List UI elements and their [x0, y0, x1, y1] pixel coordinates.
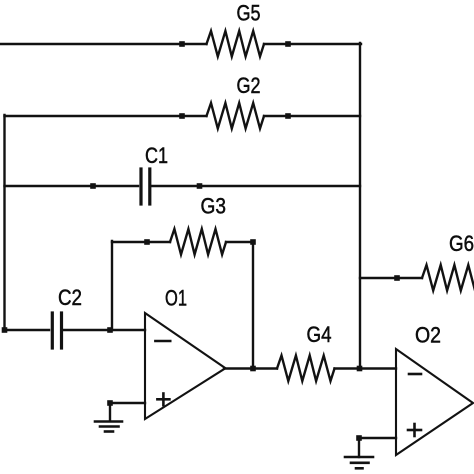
svg-text:G5: G5 — [237, 1, 261, 26]
svg-text:O2: O2 — [415, 323, 441, 348]
svg-text:G6: G6 — [449, 231, 474, 256]
svg-text:G2: G2 — [237, 73, 261, 98]
svg-text:G4: G4 — [307, 322, 332, 347]
svg-text:C1: C1 — [145, 143, 168, 168]
svg-text:C2: C2 — [58, 285, 82, 310]
svg-text:O1: O1 — [165, 286, 187, 311]
svg-text:G3: G3 — [201, 194, 227, 219]
